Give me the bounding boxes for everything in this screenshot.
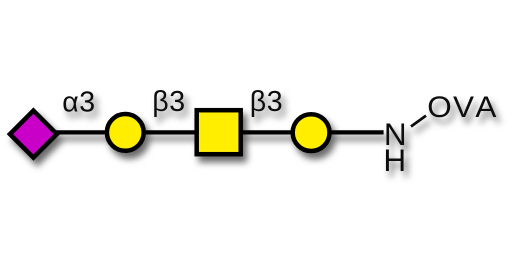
bond N to OVA <box>411 116 426 127</box>
svg-text:β3: β3 <box>152 86 185 118</box>
wire: backbone Neu5Ac to Gal2 <box>33 130 311 134</box>
svg-text:H: H <box>383 142 406 178</box>
Neu5Ac diamond <box>10 111 57 158</box>
wire: Gal2 to N <box>311 130 384 134</box>
GalNAc square <box>197 110 241 154</box>
svg-text:β3: β3 <box>250 86 283 118</box>
Gal circle 2 <box>293 114 330 151</box>
svg-text:α3: α3 <box>62 86 96 118</box>
Gal circle 1 <box>107 114 144 151</box>
svg-text:OVA: OVA <box>427 90 497 124</box>
